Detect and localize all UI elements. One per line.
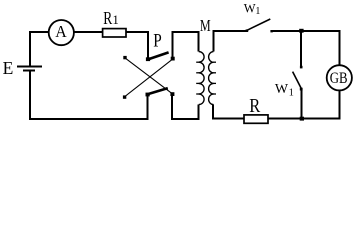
transformer secondary coil (right, bumps to the left) — [209, 52, 214, 105]
commutator crossed wire from left-top to right-bottom contact — [125, 58, 172, 94]
junction dot bottom — [300, 117, 304, 121]
wire: secondary top from right coil to W1 left contact — [214, 31, 247, 52]
contact dot left-top — [123, 56, 126, 59]
contact dot right-top — [171, 57, 175, 61]
commutator top blade — [148, 52, 169, 59]
switch W1 (top) blade — [247, 19, 270, 30]
contact dot mid-top (pivot) — [146, 57, 150, 61]
wire: commutator right-bottom lead down then right to transformer primary bottom — [172, 94, 199, 119]
wire: primary bottom left segment up to commutator mid-bottom pivot — [29, 95, 147, 120]
switch W1 (right) blade — [293, 72, 302, 89]
svg-text:W: W — [275, 82, 289, 97]
contact dot mid-bottom (pivot) — [146, 93, 150, 97]
wire: primary top from left corner through A and R1 to P corner — [30, 32, 148, 66]
transformer primary coil (left, bumps to the right) — [199, 52, 204, 105]
wire: junction down to right W1 switch top contact — [300, 32, 302, 67]
svg-text:R: R — [103, 8, 112, 28]
svg-text:A: A — [55, 22, 67, 41]
svg-text:1: 1 — [289, 88, 294, 99]
junction dot top-right — [299, 29, 303, 33]
wire: right W1 switch pivot down to bottom junction — [300, 90, 302, 119]
svg-text:M: M — [200, 16, 211, 35]
svg-text:W: W — [244, 2, 256, 16]
battery E long plate — [17, 66, 42, 68]
contact dot left-bottom — [123, 95, 126, 98]
svg-text:E: E — [3, 58, 14, 78]
wire: GB bottom to bottom-right corner, left to R box — [268, 90, 339, 118]
resistor R1 box — [103, 29, 126, 37]
commutator bottom blade — [148, 88, 168, 94]
wire: secondary top from W1 right contact to top-right corner down to GB — [272, 31, 339, 65]
svg-text:R: R — [249, 95, 261, 117]
ammeter A circle — [49, 20, 74, 45]
svg-text:P: P — [153, 30, 162, 51]
switch W1 (right) pivot contact dot — [300, 88, 303, 91]
svg-text:1: 1 — [255, 6, 260, 17]
battery E short plate — [23, 69, 35, 71]
contact dot right-bottom — [170, 92, 174, 96]
svg-text:1: 1 — [113, 13, 119, 27]
commutator crossed wire from left-bottom to right-top contact — [125, 59, 174, 97]
primary coil junction curls — [196, 62, 199, 94]
switch W1 (top) right contact dot — [270, 30, 272, 32]
switch W1 (top) left contact dot — [246, 29, 249, 32]
svg-text:GB: GB — [330, 70, 348, 87]
wire: commutator right-top lead up then right to transformer primary top — [173, 32, 199, 59]
resistor R box (bottom right) — [244, 115, 268, 123]
secondary coil junction curls — [213, 62, 216, 94]
wire: R box left to transformer secondary bottom lead — [213, 104, 245, 118]
switch W1 (right) top contact dot — [300, 66, 303, 69]
galvanometer GB circle — [327, 65, 352, 90]
wire: primary left below battery — [29, 71, 31, 119]
